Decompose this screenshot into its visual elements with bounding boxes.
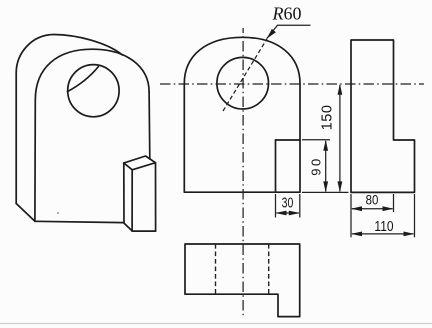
arrowhead 90 up	[323, 140, 328, 151]
iso view: back-left vertical edge	[15, 73, 17, 204]
front view: dashed radius line to R60 arc	[223, 39, 267, 111]
iso view: boss front-left vertical edge	[123, 163, 125, 223]
arrowhead 90 down	[323, 181, 328, 192]
iso view: boss bottom edge	[132, 230, 156, 232]
vertical centerline through front and top views	[242, 28, 244, 317]
iso view: hole front rim circle	[68, 65, 119, 117]
iso view: back face arc	[16, 35, 122, 74]
extension line: boss 30 left	[275, 194, 277, 218]
dimension line 150	[339, 85, 341, 191]
front view: hole circle	[217, 57, 269, 109]
dimension line 80	[352, 208, 393, 210]
iso view: front-left vertical edge	[34, 100, 36, 221]
iso view: boss middle vertical edge	[131, 170, 133, 231]
top view: outline	[185, 244, 300, 317]
arrowhead 150 down	[338, 181, 343, 192]
horizontal centerline through front and side views	[160, 83, 424, 85]
dimension line 90	[325, 141, 327, 191]
side view: middle extension down	[393, 194, 395, 212]
top view: hidden hole line right	[268, 244, 270, 294]
iso view: boss top face	[124, 156, 156, 170]
svg-text:30: 30	[282, 194, 294, 211]
R60 leader line	[267, 25, 311, 38]
iso view: boss bottom depth edge	[124, 223, 132, 231]
svg-text:150: 150	[320, 105, 336, 131]
iso view: front-right vertical edge	[148, 92, 151, 159]
arrowhead 30 left	[276, 211, 287, 216]
side view: right extension down	[414, 194, 416, 237]
dimension line 110	[352, 233, 414, 235]
extension line: boss 30 right	[299, 194, 301, 218]
arrowhead R60 at arc	[267, 29, 276, 39]
scan artifact: small dot lower-left	[57, 212, 59, 214]
iso view: hole back rim arc	[67, 67, 98, 92]
iso view: bottom-left depth edge	[16, 204, 35, 222]
arrowhead 110 left	[351, 232, 362, 237]
iso view: front face arc	[35, 49, 149, 100]
extension line: bottom edge to dims	[302, 191, 349, 193]
iso view: front bottom edge	[35, 221, 124, 222]
arrowhead 80 left	[351, 206, 362, 211]
side view: outline	[351, 40, 415, 192]
scan artifact: faint bottom line	[0, 323, 432, 325]
arrowhead 150 up	[338, 84, 343, 95]
front view: outline with R60 arc top	[184, 37, 300, 192]
iso view: boss right vertical edge	[155, 163, 157, 231]
top view: hidden hole line left	[215, 244, 217, 294]
side view: left extension down	[350, 194, 352, 237]
svg-text:80: 80	[366, 192, 379, 208]
svg-text:R60: R60	[272, 4, 302, 24]
front view: boss top edge	[276, 139, 301, 141]
svg-text:90: 90	[308, 156, 323, 175]
arrowhead 30 right	[289, 211, 300, 216]
arrowhead 110 right	[404, 232, 415, 237]
front view: boss left edge	[275, 140, 277, 192]
extension line: boss top to dims	[302, 139, 330, 141]
svg-text:110: 110	[374, 218, 394, 235]
arrowhead 80 right	[383, 206, 394, 211]
dimension line 30	[277, 212, 299, 214]
